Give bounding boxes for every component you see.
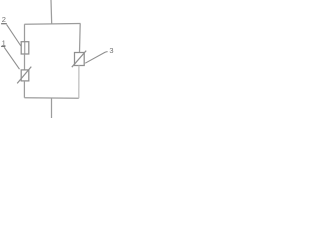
- varistor 3 diagonal: [72, 51, 86, 68]
- wire: top lead: [50, 0, 53, 24]
- varistor 1 body: [21, 70, 29, 81]
- leader line to label 2: [7, 25, 21, 46]
- fuse 2 (through-wire): [24, 42, 26, 54]
- label 1 underline: [1, 45, 5, 47]
- leader line to label 3: [85, 52, 107, 64]
- leader line to label 1: [4, 47, 19, 69]
- wire: varistor 3 to bottom bus: [78, 66, 80, 99]
- svg-text:1: 1: [2, 39, 6, 48]
- wire: varistor 1 to bottom bus: [23, 81, 25, 98]
- wire: left branch drop to fuse: [24, 24, 26, 41]
- wire: fuse 2 to varistor 1: [24, 54, 26, 70]
- wire: bottom lead: [51, 98, 53, 118]
- varistor 3 body: [75, 53, 85, 66]
- svg-text:2: 2: [2, 15, 6, 24]
- wire: bottom bus: [24, 97, 78, 100]
- wire: right branch drop to varistor 3: [79, 24, 82, 53]
- svg-text:3: 3: [109, 46, 113, 55]
- varistor 1 diagonal: [17, 67, 31, 84]
- label 2 underline: [1, 23, 7, 25]
- wire: top bus: [24, 23, 80, 26]
- fuse 2 body: [21, 42, 29, 54]
